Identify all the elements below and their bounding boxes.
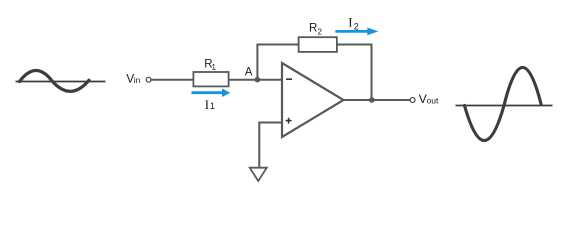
feedback wire R2 to right vertical [337, 44, 373, 46]
resistor R2 [299, 37, 337, 52]
op-amp U1 [282, 63, 344, 137]
svg-text:I: I [205, 97, 209, 112]
svg-text:in: in [134, 75, 141, 85]
svg-text:1: 1 [210, 101, 215, 111]
input terminal [146, 77, 151, 82]
svg-text:2: 2 [354, 21, 359, 31]
wire R1 to op-amp inverting input [229, 79, 282, 81]
output terminal [410, 98, 415, 103]
op-amp plus sign [286, 118, 292, 124]
svg-text:2: 2 [318, 28, 323, 37]
feedback wire down to output node [371, 44, 373, 100]
output wire [344, 99, 411, 101]
svg-text:R: R [309, 22, 317, 34]
node A junction dot [255, 77, 261, 83]
output waveform axis line [456, 105, 553, 107]
current arrow I2 [335, 28, 378, 36]
output junction dot [369, 97, 375, 103]
wire Vin to R1 [151, 79, 193, 81]
current arrow I1 [192, 88, 231, 97]
wire non-inverting input to ground [259, 123, 282, 168]
resistor R1 [193, 72, 228, 86]
svg-text:I: I [348, 15, 352, 30]
wire node A up to feedback [256, 44, 258, 81]
feedback wire top-left to R2 [257, 44, 299, 46]
output sine wave [465, 67, 542, 140]
input waveform axis line [16, 81, 106, 83]
svg-text:A: A [245, 67, 253, 79]
svg-text:1: 1 [212, 63, 217, 72]
svg-text:out: out [427, 96, 439, 106]
input sine wave [20, 70, 90, 91]
ground [250, 168, 267, 181]
op-amp minus sign [286, 78, 292, 80]
